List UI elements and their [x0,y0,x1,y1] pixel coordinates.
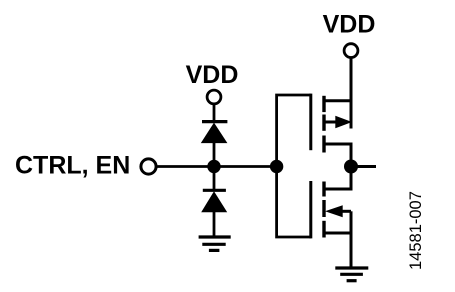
transistor Q1 PMOS drain stub [324,144,351,167]
label VDD (clamp branch) [186,61,239,89]
svg-text:CTRL, EN: CTRL, EN [15,152,130,180]
junction node B (gate node) [270,160,283,173]
wire diode D1 to node [213,142,216,167]
VDD terminal circle (clamp branch) [207,90,221,104]
wire diode D2 to ground [213,212,216,238]
diode D2 (clamp to ground) [201,190,227,212]
wire node to diode D2 [213,167,216,191]
output wire [351,165,376,168]
wire NMOS source to ground [350,211,353,268]
transistor Q2 NMOS drain stub [324,167,351,190]
svg-text:14581-007: 14581-007 [407,191,425,270]
transistor Q2 NMOS channel [322,182,325,238]
VDD terminal circle (right) [344,44,358,58]
label VDD (right) [323,11,376,39]
input terminal circle [141,159,156,174]
wire VDD terminal to diode D1 [213,105,216,122]
svg-text:VDD: VDD [186,61,239,89]
figure number 14581-007 [407,191,425,270]
transistor Q1 PMOS body arrow [324,116,352,129]
transistor Q1 PMOS source stub [324,99,351,102]
transistor Q1 PMOS gate electrode [309,94,312,151]
transistor Q1 PMOS channel [322,96,325,153]
wire VDD terminal to PMOS source and body [350,58,353,128]
label CTRL, EN [15,152,130,180]
junction node A (clamp node) [207,160,220,173]
transistor Q2 NMOS body arrow [325,205,351,217]
ground (right) [335,268,368,281]
svg-text:VDD: VDD [323,11,376,39]
gate bracket wire [277,95,311,237]
diode D1 (clamp to VDD) [201,122,228,144]
ground (clamp branch) [199,237,231,250]
output node C [344,160,358,174]
transistor Q2 NMOS gate electrode [309,181,312,238]
wire input to gate node [158,165,278,168]
transistor Q2 NMOS source stub [324,232,351,235]
